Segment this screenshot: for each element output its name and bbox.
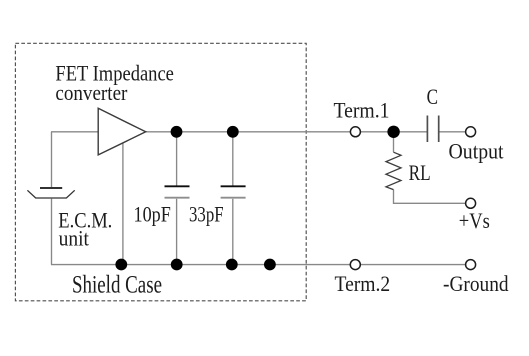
svg-text:Output: Output xyxy=(449,138,504,163)
svg-text:converter: converter xyxy=(55,80,128,105)
svg-text:RL: RL xyxy=(409,160,431,185)
svg-text:10pF: 10pF xyxy=(134,201,171,226)
svg-text:Term.2: Term.2 xyxy=(335,271,391,296)
svg-text:33pF: 33pF xyxy=(189,201,224,226)
svg-text:-Ground: -Ground xyxy=(443,271,509,296)
svg-text:unit: unit xyxy=(59,225,89,250)
svg-text:C: C xyxy=(427,84,438,109)
svg-text:Shield Case: Shield Case xyxy=(72,271,162,298)
svg-text:Term.1: Term.1 xyxy=(334,97,390,122)
svg-text:+Vs: +Vs xyxy=(459,208,490,233)
